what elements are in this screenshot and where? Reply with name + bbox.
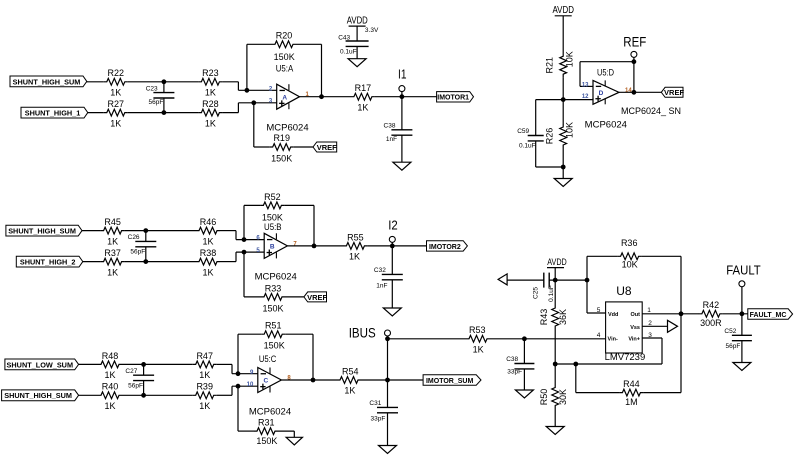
svg-text:R43: R43: [539, 309, 549, 326]
svg-text:R46: R46: [200, 217, 217, 227]
svg-text:I2: I2: [388, 217, 398, 232]
svg-text:R33: R33: [265, 283, 282, 293]
wire U8 output row: [642, 313, 699, 315]
net flag SHUNT_HIGH_SUM: [10, 76, 87, 87]
wire plus input to R33 tap: [242, 250, 261, 297]
resistor R21: [544, 51, 574, 77]
resistor R17: [351, 83, 375, 112]
svg-text:3.3V: 3.3V: [365, 27, 379, 34]
resistor R53: [466, 325, 490, 354]
svg-text:C59: C59: [517, 128, 529, 135]
net flag IMOTOR2: [427, 241, 468, 251]
op-amp U5:C: [247, 354, 292, 393]
net flag SHUNT_HIGH_SUM (I2): [6, 225, 82, 236]
resistor R39: [193, 382, 217, 411]
resistor R48: [98, 351, 122, 380]
svg-text:1nF: 1nF: [376, 283, 387, 290]
wire R22 to R23: [128, 81, 199, 83]
ground (C31): [379, 446, 397, 454]
net flag SHUNT_HIGH_1: [21, 107, 88, 118]
svg-text:IMOTOR2: IMOTOR2: [429, 244, 461, 251]
wire R23 to op-amp minus input (jog): [222, 82, 276, 91]
resistor R33: [261, 283, 285, 313]
wire vertical to R36 and Vdd pin: [587, 256, 606, 313]
svg-text:5: 5: [597, 307, 601, 314]
resistor R55: [343, 232, 367, 261]
svg-text:R40: R40: [102, 382, 119, 392]
node IBUS: [349, 326, 391, 342]
net flag VREF (U5:A): [313, 142, 337, 152]
svg-text:14: 14: [625, 88, 632, 94]
svg-text:C38: C38: [506, 356, 518, 363]
svg-text:IMOTOR_SUM: IMOTOR_SUM: [426, 378, 473, 385]
svg-text:FAULT: FAULT: [726, 262, 761, 277]
svg-text:150K: 150K: [256, 436, 277, 446]
svg-text:1M: 1M: [625, 397, 638, 407]
wire to R40: [79, 394, 98, 396]
svg-text:Vss: Vss: [630, 325, 640, 331]
svg-text:C32: C32: [374, 267, 386, 274]
svg-text:R31: R31: [258, 418, 275, 428]
svg-text:4: 4: [597, 332, 601, 339]
resistor R54: [337, 366, 361, 395]
svg-text:1K: 1K: [344, 386, 355, 396]
wire R20 to output vertical: [296, 44, 324, 99]
wire R52 to output vertical: [284, 205, 316, 248]
wire R40 to R39: [122, 394, 193, 396]
svg-text:1K: 1K: [473, 344, 484, 354]
ground (C43): [348, 59, 366, 67]
svg-text:1K: 1K: [110, 88, 121, 98]
svg-text:R27: R27: [108, 99, 125, 109]
net flag IMOTOR1: [437, 92, 474, 102]
svg-text:MCP6024: MCP6024: [585, 119, 627, 130]
svg-text:U5:A: U5:A: [276, 64, 294, 75]
wire R55 to I2 node: [367, 244, 426, 249]
svg-text:0.1uF: 0.1uF: [340, 48, 357, 55]
wire R17 to I1 node: [375, 94, 437, 99]
wire divider junction to C59: [536, 100, 564, 136]
svg-text:AVDD: AVDD: [547, 257, 567, 268]
svg-text:B: B: [270, 244, 275, 251]
svg-text:56pF: 56pF: [130, 249, 145, 256]
resistor R45: [101, 217, 125, 246]
svg-text:R21: R21: [544, 57, 554, 74]
svg-text:10K: 10K: [565, 122, 575, 138]
wire R33 to VREF: [285, 296, 304, 298]
svg-text:56pF: 56pF: [148, 99, 163, 106]
svg-text:33pF: 33pF: [507, 368, 522, 375]
wire R46 to op-amp minus input (jog): [220, 231, 264, 240]
resistor R19: [270, 133, 294, 164]
svg-text:33pF: 33pF: [370, 415, 385, 422]
wire IBUS vertical to output row: [387, 339, 389, 380]
wire R42 to FAULT junction: [723, 311, 748, 316]
net flag IMOTOR_SUM: [423, 375, 481, 385]
svg-text:1K: 1K: [107, 267, 118, 277]
wire U5:D output to VREF: [619, 91, 661, 93]
wire hysteresis vertical to R44: [576, 364, 620, 393]
wire R44 right vertical to output row: [643, 314, 681, 393]
svg-text:C26: C26: [128, 234, 140, 241]
ground (C25 sideways): [498, 274, 507, 285]
net flag VREF (REF): [661, 87, 684, 97]
wire REF vertical to output row: [632, 62, 637, 95]
svg-text:10K: 10K: [565, 51, 575, 67]
wire SHUNT_HIGH_SUM input row: [86, 81, 104, 83]
svg-text:R22: R22: [108, 68, 125, 78]
wire R28 to op-amp plus input (jog): [222, 103, 276, 113]
resistor R22: [104, 68, 128, 97]
capacitor C31: [369, 380, 398, 446]
svg-text:Vin-: Vin-: [608, 337, 618, 343]
capacitor C52: [724, 314, 751, 363]
svg-text:1: 1: [647, 307, 651, 314]
svg-text:R52: R52: [264, 192, 281, 202]
svg-text:C: C: [263, 378, 268, 385]
wire feedback left vertical U5:A: [245, 44, 273, 92]
wire plus input to R31 tap: [236, 384, 254, 431]
svg-text:R19: R19: [273, 133, 290, 143]
net flag SHUNT_HIGH_2: [16, 256, 83, 267]
svg-text:C25: C25: [532, 287, 539, 299]
svg-text:36K: 36K: [558, 309, 568, 325]
wire divider junction to op-amp plus input: [563, 98, 593, 99]
wire R19 to VREF: [294, 146, 313, 148]
svg-text:10: 10: [247, 382, 254, 388]
net flag VREF (U5:B): [304, 292, 328, 302]
svg-text:150K: 150K: [274, 52, 295, 62]
svg-text:I1: I1: [398, 66, 407, 81]
wire R39 to op-amp plus input (jog): [217, 386, 258, 395]
svg-text:AVDD: AVDD: [552, 4, 574, 16]
power AVDD (U8): [547, 257, 567, 280]
op-amp U5:D: [582, 68, 633, 105]
ground (C32): [383, 308, 401, 316]
node I1: [398, 66, 407, 96]
svg-text:1K: 1K: [202, 236, 213, 246]
capacitor C25: [507, 273, 555, 302]
svg-text:VREF: VREF: [317, 143, 337, 152]
resistor R47: [193, 351, 217, 380]
resistor R20: [272, 31, 296, 62]
capacitor C38 (I1 filter): [384, 97, 413, 163]
ground (C38 comparator): [515, 390, 533, 398]
svg-text:R38: R38: [200, 248, 217, 258]
svg-text:Vin+: Vin+: [628, 337, 640, 343]
wire R53 to C38 junction and Vin-: [490, 336, 606, 341]
svg-text:MCP6024: MCP6024: [255, 271, 297, 282]
svg-text:AVDD: AVDD: [347, 14, 368, 26]
svg-text:R20: R20: [276, 31, 293, 41]
ground (C38): [393, 162, 411, 170]
svg-text:R47: R47: [196, 351, 213, 361]
svg-text:1K: 1K: [107, 236, 118, 246]
svg-text:10K: 10K: [622, 260, 638, 270]
resistor R38: [196, 248, 220, 277]
node I2: [388, 217, 398, 246]
svg-text:U5:D: U5:D: [597, 68, 614, 79]
net flag SHUNT_LOW_SUM: [5, 359, 79, 370]
svg-text:R48: R48: [102, 351, 119, 361]
node FAULT: [726, 262, 761, 313]
svg-text:R26: R26: [544, 128, 554, 145]
capacitor C32: [374, 246, 403, 308]
svg-text:1K: 1K: [104, 401, 115, 411]
resistor R26: [544, 122, 574, 148]
svg-text:VREF: VREF: [664, 88, 684, 97]
wire AVDD junction to R36/Vdd vertical: [549, 278, 589, 283]
svg-text:REF: REF: [623, 34, 646, 50]
node junction C26 top: [143, 228, 148, 233]
resistor R42: [699, 300, 723, 328]
svg-text:56pF: 56pF: [725, 343, 740, 350]
wire R47 to op-amp minus input (jog): [217, 364, 258, 373]
resistor R46: [196, 217, 220, 246]
wire R27 to R28: [128, 112, 199, 114]
op-amp U5:A: [269, 64, 310, 110]
wire Vss to sideways ground: [642, 325, 667, 327]
svg-text:C31: C31: [369, 400, 381, 407]
wire op-amp output row to R55: [287, 245, 343, 247]
svg-text:C23: C23: [146, 85, 158, 92]
wire to R45: [82, 230, 101, 232]
svg-text:U8: U8: [616, 284, 632, 298]
svg-text:1K: 1K: [205, 118, 216, 128]
wire R43 to divider junction (crossing Vin- row): [554, 329, 556, 364]
svg-text:Out: Out: [631, 312, 641, 318]
node junction C27 top: [141, 362, 146, 367]
net flag FAULT_MC: [748, 309, 793, 319]
wire IBUS row to R53: [388, 338, 467, 340]
svg-text:R55: R55: [347, 232, 364, 242]
svg-text:D: D: [599, 90, 604, 97]
svg-text:LMV7239: LMV7239: [605, 352, 646, 363]
svg-text:R50: R50: [539, 389, 549, 406]
svg-text:1K: 1K: [199, 370, 210, 380]
ground (R50): [546, 427, 564, 435]
capacitor C27: [125, 364, 154, 395]
svg-text:300R: 300R: [700, 318, 722, 328]
power AVDD (REF divider): [552, 4, 574, 53]
wire SHUNT_HIGH_1 input row: [88, 112, 104, 114]
wire R36 right vertical to output row: [679, 256, 684, 316]
resistor R28: [198, 99, 222, 128]
resistor R31: [254, 418, 278, 447]
capacitor C23: [146, 82, 175, 113]
svg-text:1K: 1K: [349, 252, 360, 262]
svg-text:150K: 150K: [271, 154, 292, 164]
svg-text:C52: C52: [724, 328, 736, 335]
resistor R40: [98, 382, 122, 411]
svg-text:SHUNT_HIGH_SUM: SHUNT_HIGH_SUM: [4, 391, 72, 400]
svg-text:SHUNT_HIGH_1: SHUNT_HIGH_1: [25, 109, 81, 118]
svg-text:1nF: 1nF: [386, 136, 397, 143]
resistor R43: [539, 280, 568, 329]
capacitor C59: [517, 128, 543, 167]
svg-text:R17: R17: [355, 83, 372, 93]
svg-text:13: 13: [582, 82, 589, 88]
svg-text:30K: 30K: [558, 389, 568, 405]
wire R54 to IMOTOR_SUM junction: [361, 378, 423, 383]
resistor R37: [101, 248, 125, 277]
wire R45 to R46: [125, 230, 196, 232]
wire R51 to output vertical: [285, 334, 315, 382]
node REF: [623, 34, 646, 62]
resistor R51: [261, 321, 285, 351]
wire R31 to ground: [278, 431, 294, 437]
resistor R52: [260, 192, 284, 223]
capacitor C43: [338, 35, 368, 59]
wire to R48: [79, 363, 98, 365]
svg-text:C43: C43: [338, 35, 350, 42]
svg-text:U5:C: U5:C: [259, 354, 277, 365]
svg-text:MCP6024_ SN: MCP6024_ SN: [621, 106, 681, 116]
svg-text:R44: R44: [623, 379, 640, 389]
svg-text:C27: C27: [125, 368, 137, 375]
wire feedback U5:D: [580, 59, 636, 86]
svg-text:FAULT_MC: FAULT_MC: [750, 312, 787, 319]
ground (R31): [286, 437, 302, 445]
wire to R37: [83, 261, 101, 263]
resistor R36: [587, 238, 681, 270]
node junction C23 bottom: [162, 110, 167, 115]
svg-text:A: A: [282, 94, 287, 101]
svg-text:150K: 150K: [262, 303, 283, 313]
svg-text:150K: 150K: [264, 341, 285, 351]
resistor R27: [104, 99, 128, 128]
svg-text:R36: R36: [621, 238, 638, 248]
wire C59 bottom to ground rail: [536, 165, 566, 170]
svg-text:U5:B: U5:B: [264, 222, 282, 233]
wire feedback left vertical U5:B: [242, 205, 261, 242]
node divider junction: [561, 97, 566, 102]
svg-text:R28: R28: [202, 99, 219, 109]
svg-text:56pF: 56pF: [128, 383, 143, 390]
svg-text:R37: R37: [104, 248, 121, 258]
svg-text:R53: R53: [469, 325, 486, 335]
svg-text:0.1uF: 0.1uF: [548, 285, 555, 302]
wire feedback left vertical U5:C: [236, 334, 262, 376]
svg-text:R54: R54: [342, 366, 359, 376]
net flag SHUNT_HIGH_SUM (IBUS): [2, 390, 79, 401]
svg-text:R45: R45: [104, 217, 121, 227]
svg-text:1K: 1K: [357, 102, 368, 112]
svg-text:1K: 1K: [104, 370, 115, 380]
svg-text:VREF: VREF: [307, 293, 327, 302]
svg-text:SHUNT_HIGH_SUM: SHUNT_HIGH_SUM: [13, 77, 81, 86]
svg-text:1K: 1K: [205, 88, 216, 98]
svg-text:SHUNT_HIGH_SUM: SHUNT_HIGH_SUM: [8, 227, 76, 236]
ground (REF divider): [554, 179, 572, 187]
svg-text:0.1uF: 0.1uF: [519, 143, 536, 150]
svg-text:SHUNT_LOW_SUM: SHUNT_LOW_SUM: [7, 360, 73, 369]
resistor R50: [539, 364, 568, 409]
wire R21 to divider junction: [562, 77, 564, 124]
capacitor C26: [128, 231, 157, 262]
wire R48 to R47: [122, 363, 193, 365]
wire op-amp output row to R17: [300, 96, 352, 98]
node junction C27 bottom: [141, 393, 146, 398]
svg-text:IMOTOR1: IMOTOR1: [437, 95, 469, 102]
svg-text:1K: 1K: [110, 118, 121, 128]
svg-text:C38: C38: [384, 122, 396, 129]
resistor R44: [619, 379, 643, 407]
svg-text:1K: 1K: [202, 267, 213, 277]
svg-text:R39: R39: [196, 382, 213, 392]
svg-text:12: 12: [582, 94, 589, 100]
svg-text:IBUS: IBUS: [349, 326, 376, 341]
svg-text:R51: R51: [265, 321, 282, 331]
wire R38 to op-amp plus input (jog): [220, 252, 264, 262]
svg-text:R42: R42: [703, 300, 720, 310]
resistor R23: [198, 68, 222, 97]
wire op-amp output row to R54: [281, 379, 337, 381]
capacitor C38 (comparator input): [506, 339, 534, 390]
wire Vin+ pin to divider junction: [553, 338, 662, 366]
node junction C23 top: [162, 79, 167, 84]
wire R37 to R38: [125, 261, 196, 263]
ground (C52): [733, 363, 751, 371]
op-amp U5:B: [256, 222, 297, 258]
svg-text:MCP6024: MCP6024: [249, 406, 291, 417]
wire R50 to ground: [554, 409, 556, 427]
power AVDD (U5 supply): [347, 14, 379, 41]
svg-text:Vdd: Vdd: [608, 312, 618, 318]
svg-text:R23: R23: [202, 68, 219, 78]
svg-text:SHUNT_HIGH_2: SHUNT_HIGH_2: [20, 258, 76, 267]
wire plus input to R19 tap: [251, 100, 269, 147]
svg-text:150K: 150K: [262, 213, 283, 223]
svg-text:1K: 1K: [199, 401, 210, 411]
ground (Vss sideways): [668, 320, 678, 332]
comparator U8 box: [597, 284, 653, 353]
node junction C26 bottom: [143, 259, 148, 264]
wire R26 to ground: [562, 148, 564, 179]
